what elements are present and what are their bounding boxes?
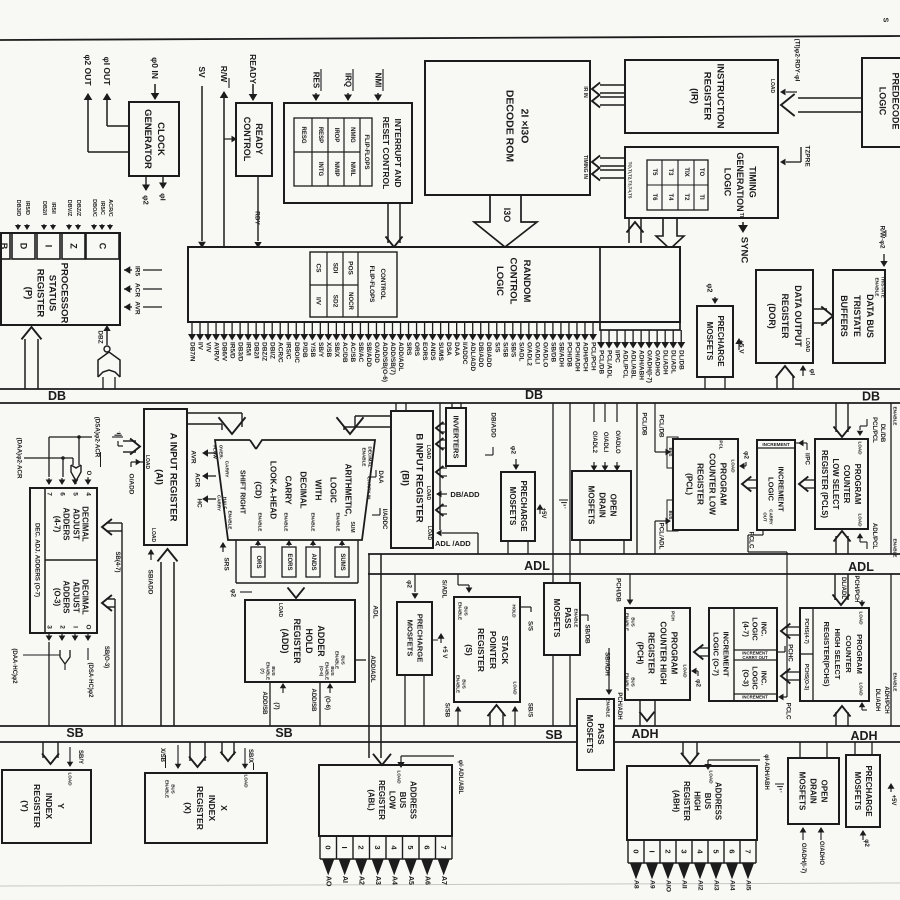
svg-text:SB/X: SB/X	[247, 749, 253, 763]
svg-text:ANDS: ANDS	[310, 553, 316, 570]
svg-text:ADD/SB(7): ADD/SB(7)	[389, 342, 396, 375]
svg-text:DB6/V: DB6/V	[221, 342, 228, 362]
svg-text:PCHC: PCHC	[787, 644, 794, 662]
svg-text:ENABLE: ENABLE	[284, 513, 289, 532]
svg-text:ADL/ABL: ADL/ABL	[630, 350, 637, 379]
svg-text:ADH/PCH: ADH/PCH	[883, 686, 889, 713]
svg-text:PCHS(4-7): PCHS(4-7)	[803, 618, 809, 644]
svg-text:SB/DB: SB/DB	[584, 624, 591, 644]
svg-text:X/SB: X/SB	[159, 748, 165, 763]
svg-text:(DSA)φ2·ACR: (DSA)φ2·ACR	[94, 417, 101, 458]
svg-text:A3: A3	[374, 876, 381, 885]
svg-text:AO: AO	[325, 876, 332, 887]
svg-text:ADL /ADD: ADL /ADD	[435, 539, 471, 548]
svg-text:φ2: φ2	[230, 589, 237, 598]
svg-text:AC/SB: AC/SB	[349, 342, 356, 363]
svg-text:LOAD: LOAD	[858, 441, 863, 455]
svg-text:I: I	[340, 846, 349, 848]
svg-text:T5: T5	[651, 168, 657, 176]
svg-text:ORS: ORS	[413, 342, 420, 357]
svg-text:LOAD: LOAD	[859, 611, 864, 625]
svg-text:SB/AC: SB/AC	[357, 342, 364, 363]
svg-text:DAA: DAA	[453, 342, 460, 356]
svg-text:(O-6): (O-6)	[324, 696, 330, 710]
svg-text:SB/ADD: SB/ADD	[147, 570, 154, 595]
svg-text:IR IN: IR IN	[582, 86, 588, 98]
svg-text:DL/DB: DL/DB	[678, 350, 685, 370]
svg-text:AI: AI	[341, 876, 348, 883]
svg-text:ADD/SB: ADD/SB	[310, 688, 316, 712]
svg-text:φI·ADL/ABL: φI·ADL/ABL	[457, 760, 463, 795]
svg-text:NMIL: NMIL	[349, 162, 355, 177]
svg-text:ADD/SB(O-6): ADD/SB(O-6)	[381, 342, 388, 382]
svg-text:DAA: DAA	[377, 471, 383, 485]
svg-text:ADD/SB: ADD/SB	[261, 691, 267, 715]
svg-text:+5V: +5V	[890, 795, 896, 806]
svg-text:φ2: φ2	[406, 580, 413, 588]
svg-text:NMI: NMI	[374, 73, 383, 88]
svg-text:PCH/ADH: PCH/ADH	[573, 342, 580, 372]
svg-text:SB/ADH: SB/ADH	[557, 342, 564, 367]
svg-text:DBZ: DBZ	[97, 330, 104, 343]
svg-text:LOAD: LOAD	[425, 486, 431, 501]
svg-text:T3: T3	[667, 168, 673, 176]
svg-text:IR5/C: IR5/C	[99, 201, 105, 215]
svg-text:SB: SB	[66, 726, 83, 740]
svg-text:NMIP: NMIP	[333, 162, 339, 177]
svg-text:I: I	[72, 626, 79, 628]
svg-text:SD2: SD2	[332, 295, 339, 308]
svg-text:O: O	[85, 471, 91, 476]
svg-text:PCL/DB: PCL/DB	[658, 414, 665, 438]
svg-text:SB/S: SB/S	[509, 342, 516, 358]
svg-text:AVR: AVR	[190, 450, 197, 464]
svg-text:LOAD: LOAD	[804, 338, 810, 353]
svg-text:ACR/C: ACR/C	[107, 199, 113, 216]
svg-text:PRECHARGEMOSFETS: PRECHARGEMOSFETS	[405, 614, 424, 663]
svg-text:SB/Y: SB/Y	[317, 342, 324, 358]
svg-text:4: 4	[85, 492, 92, 496]
svg-text:O/ADH(I-7): O/ADH(I-7)	[800, 843, 806, 873]
svg-text:PCH: PCH	[671, 611, 676, 621]
svg-text:EORS: EORS	[286, 553, 292, 570]
svg-text:DBO/C: DBO/C	[91, 199, 97, 217]
svg-text:AVR: AVR	[134, 301, 141, 315]
svg-text:ADD/ADL: ADD/ADL	[369, 656, 375, 683]
svg-text:I: I	[44, 245, 54, 248]
svg-text:LOAD: LOAD	[150, 528, 156, 543]
svg-text:AC/DB: AC/DB	[341, 342, 348, 363]
svg-text:ADL: ADL	[848, 560, 874, 574]
svg-text:LOAD: LOAD	[244, 774, 249, 788]
svg-text:DL/ADL: DL/ADL	[840, 577, 846, 599]
svg-text:Y/SB: Y/SB	[309, 342, 316, 357]
svg-text:DL/ADH: DL/ADH	[874, 689, 880, 712]
svg-text:I/PC: I/PC	[614, 350, 621, 363]
svg-text:R/W: R/W	[219, 66, 229, 84]
svg-text:DB/ADD: DB/ADD	[490, 412, 497, 438]
svg-text:RESG: RESG	[300, 126, 306, 143]
svg-text:T2: T2	[683, 193, 689, 201]
svg-text:PCH/DB: PCH/DB	[615, 578, 622, 602]
svg-text:SB/Y: SB/Y	[77, 750, 83, 764]
svg-text:0: 0	[324, 845, 333, 849]
svg-text:SB: SB	[545, 728, 562, 742]
svg-text:LOAD: LOAD	[144, 455, 150, 470]
svg-text:LOAD: LOAD	[859, 682, 864, 696]
svg-text:I/PC: I/PC	[804, 453, 811, 466]
svg-text:AI2: AI2	[697, 880, 704, 891]
svg-text:TRISTATEENABLE: TRISTATEENABLE	[875, 276, 886, 298]
svg-text:T6: T6	[651, 193, 657, 201]
svg-text:SUMS: SUMS	[339, 553, 345, 570]
svg-text:INVERTERS: INVERTERS	[452, 416, 461, 459]
svg-text:φ2: φ2	[142, 195, 151, 205]
svg-text:O/ADL2: O/ADL2	[525, 342, 532, 366]
svg-text:P/DB: P/DB	[301, 342, 308, 358]
svg-text:S/SB: S/SB	[444, 703, 451, 718]
svg-text:IRS/C: IRS/C	[285, 342, 292, 360]
svg-text:3: 3	[680, 849, 689, 853]
svg-text:INTG: INTG	[317, 162, 323, 177]
svg-text:O/ADHO: O/ADHO	[654, 350, 661, 376]
svg-text:O/ADLI: O/ADLI	[533, 342, 540, 364]
svg-text:CARRY IN: CARRY IN	[366, 477, 372, 500]
svg-text:DB/ADD: DB/ADD	[450, 490, 480, 499]
svg-text:A6: A6	[424, 876, 431, 885]
svg-text:O/ADD: O/ADD	[128, 474, 135, 495]
svg-text:A2: A2	[358, 876, 365, 885]
svg-text:TI: TI	[738, 213, 744, 218]
svg-text:(DAA)φ2·ACR: (DAA)φ2·ACR	[16, 438, 23, 479]
svg-text:HALFCARRY: HALFCARRY	[217, 495, 228, 511]
svg-text:LOAD: LOAD	[513, 681, 518, 695]
svg-text:ENABLE: ENABLE	[893, 407, 898, 426]
svg-text:DBO/C: DBO/C	[293, 342, 300, 363]
svg-text:TO: TO	[698, 168, 704, 177]
svg-text:EORS: EORS	[421, 342, 428, 361]
svg-text:φI OUT: φI OUT	[102, 57, 112, 87]
svg-text:ADH/ABH: ADH/ABH	[638, 350, 645, 380]
svg-text:ADL/PCL: ADL/PCL	[871, 523, 877, 549]
svg-text:INCREMENTLOGIC (O-7): INCREMENTLOGIC (O-7)	[712, 631, 731, 677]
svg-text:6: 6	[423, 845, 432, 849]
svg-text:O/ADL2: O/ADL2	[591, 431, 597, 454]
svg-text:ADH: ADH	[850, 729, 877, 743]
svg-text:LOAD: LOAD	[397, 770, 402, 784]
svg-text:SDI: SDI	[332, 263, 339, 274]
svg-text:O: O	[85, 624, 92, 629]
svg-text:φ2: φ2	[743, 451, 750, 459]
svg-text:(TI)φ2·RDY·φI: (TI)φ2·RDY·φI	[794, 39, 801, 82]
svg-text:SUMS: SUMS	[437, 342, 444, 361]
svg-text:V/V: V/V	[205, 342, 212, 353]
svg-text:S/S: S/S	[493, 342, 500, 353]
svg-text:ADL: ADL	[372, 605, 379, 618]
svg-text:LOAD: LOAD	[277, 603, 283, 618]
svg-text:PCL/ADL: PCL/ADL	[658, 523, 665, 550]
svg-text:DB3/D: DB3/D	[237, 342, 244, 362]
svg-text:DBV/Z: DBV/Z	[66, 200, 72, 217]
svg-text:PCHS(O-3): PCHS(O-3)	[803, 664, 809, 691]
svg-text:5: 5	[406, 845, 415, 849]
svg-text:PCH/PCH: PCH/PCH	[853, 575, 859, 602]
svg-text:PCL/DB: PCL/DB	[598, 350, 605, 375]
svg-text:DB: DB	[525, 388, 543, 402]
svg-text:DB2/I: DB2/I	[41, 201, 47, 216]
svg-text:DECIMALENABLE: DECIMALENABLE	[361, 447, 372, 468]
svg-text:LOAD: LOAD	[426, 526, 432, 541]
svg-text:S/S: S/S	[527, 621, 534, 631]
svg-text:I/V: I/V	[315, 297, 322, 306]
svg-text:DB3/D: DB3/D	[15, 200, 21, 217]
svg-text:SRS: SRS	[223, 557, 230, 571]
svg-text:+5 V: +5 V	[441, 646, 447, 659]
svg-text:SB/S: SB/S	[527, 703, 534, 717]
svg-text:POS: POS	[347, 261, 354, 275]
svg-text:DL/ADH: DL/ADH	[662, 350, 669, 375]
svg-text:2: 2	[664, 849, 673, 853]
svg-text:LOAD: LOAD	[858, 513, 863, 527]
svg-text:I/V: I/V	[197, 342, 204, 351]
svg-text:6: 6	[59, 492, 66, 496]
svg-text:7: 7	[46, 492, 53, 496]
svg-text:ADL/PCL: ADL/PCL	[622, 350, 629, 378]
svg-text:3: 3	[373, 845, 382, 849]
svg-text:DBZ/Z: DBZ/Z	[75, 200, 81, 217]
svg-text:PCL/DB: PCL/DB	[641, 412, 648, 436]
svg-text:ANDS: ANDS	[429, 342, 436, 361]
svg-text:ENABLE: ENABLE	[606, 699, 611, 718]
svg-text:ENABLE: ENABLE	[228, 511, 233, 530]
svg-text:LOAD: LOAD	[68, 772, 73, 786]
svg-text:DBZ/Z: DBZ/Z	[261, 342, 268, 361]
svg-text:I/ADDC: I/ADDC	[461, 342, 468, 365]
svg-text:SYNC: SYNC	[739, 237, 750, 264]
svg-text:DB2/I: DB2/I	[253, 342, 260, 359]
svg-text:0: 0	[632, 849, 641, 853]
svg-text:I: I	[648, 850, 657, 852]
svg-text:φ2: φ2	[706, 284, 713, 293]
svg-text:DEC. ADJ. ADDERS (O-7): DEC. ADJ. ADDERS (O-7)	[34, 523, 41, 597]
svg-text:φ2: φ2	[863, 839, 869, 847]
svg-text:SB/ADD: SB/ADD	[365, 342, 372, 367]
svg-text:SB/X: SB/X	[333, 342, 340, 358]
svg-text:T4: T4	[667, 193, 673, 201]
svg-text:ACR: ACR	[134, 283, 141, 297]
svg-text:IROP: IROP	[333, 128, 339, 143]
svg-text:A9: A9	[649, 880, 656, 889]
svg-text:TIMING IN: TIMING IN	[582, 155, 588, 179]
svg-text:O/ADLO: O/ADLO	[614, 430, 620, 454]
svg-text:DB: DB	[48, 389, 66, 403]
svg-text:IR5/I: IR5/I	[245, 342, 252, 356]
svg-text:ENABLE: ENABLE	[574, 609, 579, 628]
svg-text:6: 6	[728, 849, 737, 853]
svg-text:S/SB: S/SB	[501, 342, 508, 357]
svg-text:C: C	[98, 243, 108, 250]
svg-text:O/ADLO: O/ADLO	[541, 342, 548, 367]
svg-text:ACR/C: ACR/C	[277, 342, 284, 363]
svg-text:φ2 OUT: φ2 OUT	[83, 54, 93, 86]
svg-text:SB(O-3): SB(O-3)	[103, 646, 109, 668]
svg-text:INCREMENT: INCREMENT	[762, 442, 790, 447]
svg-text:PCH/DB: PCH/DB	[565, 342, 572, 367]
svg-text:3: 3	[46, 625, 53, 629]
svg-text:PCLC: PCLC	[785, 703, 792, 720]
svg-text:AI3: AI3	[713, 880, 720, 891]
svg-text:SUM: SUM	[349, 521, 355, 532]
svg-text:IR5/I: IR5/I	[50, 202, 56, 214]
svg-text:5: 5	[72, 492, 79, 496]
svg-text:PCL: PCL	[719, 440, 724, 449]
svg-text:OVER-FLOW: OVER-FLOW	[213, 445, 224, 460]
svg-text:SHIFT RIGHT: SHIFT RIGHT	[239, 470, 246, 515]
svg-text:DB/ADD: DB/ADD	[477, 342, 484, 368]
svg-text:5: 5	[712, 849, 721, 853]
svg-text:φ2: φ2	[510, 446, 517, 455]
svg-text:(DAA·HC)φ2: (DAA·HC)φ2	[11, 648, 17, 684]
svg-text:SV: SV	[197, 66, 207, 78]
svg-text:CARRY: CARRY	[224, 461, 230, 479]
svg-text:LOAD: LOAD	[709, 770, 714, 784]
svg-text:ENABLE: ENABLE	[893, 673, 898, 692]
svg-text:PCL/PCH: PCL/PCH	[590, 342, 597, 371]
svg-text:RES: RES	[312, 72, 321, 89]
svg-text:NMIG: NMIG	[349, 127, 355, 143]
svg-text:TO,TI,T2,T3,T4,T5: TO,TI,T2,T3,T4,T5	[628, 162, 633, 199]
svg-text:DL/DB: DL/DB	[879, 424, 885, 443]
svg-text:φI: φI	[809, 369, 816, 376]
svg-text:LOAD: LOAD	[683, 664, 688, 678]
svg-text:SB: SB	[275, 726, 292, 740]
svg-text:O/ADLI: O/ADLI	[602, 432, 608, 453]
svg-text:AI4: AI4	[729, 880, 736, 891]
svg-text:ENABLE: ENABLE	[311, 513, 316, 532]
svg-text:B: B	[0, 243, 9, 250]
svg-text:2: 2	[357, 845, 366, 849]
svg-text:X/SB: X/SB	[325, 342, 332, 357]
svg-text:PCL/PCL: PCL/PCL	[871, 417, 877, 443]
svg-text:ADH/PCH: ADH/PCH	[581, 342, 588, 372]
svg-text:+5 V: +5 V	[738, 340, 745, 354]
svg-text:AI5: AI5	[745, 880, 752, 891]
svg-text:φ0 IN: φ0 IN	[150, 57, 160, 79]
svg-text:DBI/Z: DBI/Z	[269, 342, 276, 359]
svg-text:A7: A7	[440, 876, 447, 885]
svg-text:(DSA·HC)φ2: (DSA·HC)φ2	[87, 663, 93, 699]
svg-text:PCH/ADH: PCH/ADH	[616, 692, 622, 719]
svg-text:LOAD: LOAD	[769, 79, 775, 94]
svg-text:7: 7	[744, 849, 753, 853]
svg-text:DB: DB	[862, 390, 880, 404]
svg-text:AIO: AIO	[665, 880, 672, 892]
svg-text:INCREMENT: INCREMENT	[742, 695, 768, 700]
svg-text:SRS: SRS	[405, 342, 412, 356]
svg-text:CS: CS	[315, 263, 322, 273]
svg-text:IRQ: IRQ	[344, 73, 353, 87]
svg-text:DATA BUSTRISTATEBUFFERS: DATA BUSTRISTATEBUFFERS	[839, 294, 875, 338]
svg-text:READY: READY	[248, 54, 258, 84]
svg-text:SB(4-7): SB(4-7)	[114, 551, 120, 572]
svg-text:ACR: ACR	[194, 473, 201, 487]
svg-text:R/W·φ2: R/W·φ2	[879, 225, 886, 248]
svg-text:D: D	[19, 243, 29, 250]
svg-text:DSA: DSA	[445, 342, 452, 356]
svg-text:S: S	[882, 18, 889, 23]
svg-text:HOLD: HOLD	[512, 604, 517, 618]
svg-text:RESP: RESP	[317, 127, 323, 143]
svg-text:PCL/ADL: PCL/ADL	[606, 350, 613, 378]
svg-text:ORS: ORS	[255, 555, 261, 568]
svg-text:S/ADL: S/ADL	[441, 580, 448, 599]
svg-text:NOCR: NOCR	[347, 292, 353, 310]
svg-text:AVR/V: AVR/V	[213, 342, 220, 362]
svg-text:DB/ADD: DB/ADD	[485, 342, 492, 368]
svg-text:DB7/N: DB7/N	[189, 342, 196, 362]
svg-text:I/ADDC: I/ADDC	[381, 509, 387, 530]
svg-text:ADH: ADH	[631, 727, 658, 741]
svg-text:ENABLE: ENABLE	[258, 513, 263, 532]
svg-text:HC: HC	[196, 498, 203, 508]
svg-text:LOAD: LOAD	[425, 445, 431, 460]
svg-text:FLIP-FLOPS: FLIP-FLOPS	[363, 135, 369, 170]
svg-text:(7): (7)	[273, 702, 279, 709]
svg-text:φ2: φ2	[695, 679, 702, 687]
svg-text:TIX: TIX	[683, 167, 689, 176]
svg-text:O/ADH(I-7): O/ADH(I-7)	[646, 350, 653, 383]
svg-text:O/ADD: O/ADD	[373, 342, 380, 363]
svg-text:RDY: RDY	[254, 211, 261, 225]
svg-text:ADL/ADD: ADL/ADD	[469, 342, 476, 372]
svg-text:7: 7	[439, 845, 448, 849]
svg-text:CARRY OUT: CARRY OUT	[742, 655, 768, 660]
svg-text:2: 2	[59, 625, 66, 629]
svg-text:A5: A5	[407, 876, 414, 885]
svg-text:Z: Z	[69, 243, 79, 249]
svg-text:DL/ADL: DL/ADL	[670, 350, 677, 374]
svg-text:AII: AII	[681, 880, 688, 889]
svg-text:A8: A8	[633, 880, 640, 889]
svg-text:A4: A4	[391, 876, 398, 885]
svg-text:φI·ADH/ABH: φI·ADH/ABH	[763, 754, 769, 790]
svg-text:ENABLE: ENABLE	[893, 539, 898, 558]
svg-text:φI: φI	[159, 193, 168, 200]
svg-text:ADL: ADL	[524, 559, 550, 573]
svg-text:S/ADL: S/ADL	[517, 342, 524, 362]
svg-text:ENABLE: ENABLE	[336, 513, 341, 532]
svg-text:ADD/ADL: ADD/ADL	[397, 342, 404, 371]
svg-text:TI: TI	[698, 194, 704, 200]
svg-text:SB/DB: SB/DB	[549, 342, 556, 363]
svg-text:IR5/D: IR5/D	[229, 342, 236, 359]
svg-text:TZPRE: TZPRE	[804, 145, 811, 167]
svg-text:IR5: IR5	[134, 266, 141, 277]
svg-text:LOAD: LOAD	[731, 459, 736, 473]
svg-text:I3O: I3O	[502, 208, 512, 223]
svg-text:IR5/D: IR5/D	[24, 201, 30, 215]
svg-text:O/ADHO: O/ADHO	[818, 841, 824, 865]
svg-text:+5V: +5V	[540, 508, 546, 519]
